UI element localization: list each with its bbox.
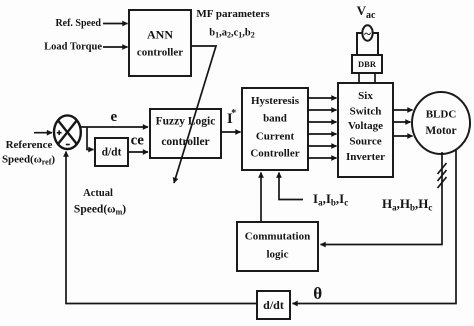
svg-text:logic: logic <box>267 249 289 261</box>
svg-text:Source: Source <box>349 136 381 148</box>
svg-text:Voltage: Voltage <box>348 120 383 132</box>
svg-text:Six: Six <box>358 90 373 102</box>
svg-text:BLDC: BLDC <box>426 109 457 121</box>
svg-text:Vac: Vac <box>357 3 376 21</box>
svg-text:controller: controller <box>137 47 183 59</box>
svg-text:d/dt: d/dt <box>263 298 284 312</box>
svg-text:Speed(ωref): Speed(ωref) <box>2 154 55 167</box>
svg-text:ce: ce <box>131 133 145 149</box>
svg-text:MF parameters: MF parameters <box>196 8 270 20</box>
svg-text:Actual: Actual <box>83 188 113 199</box>
svg-text:Motor: Motor <box>425 125 456 137</box>
svg-text:Inverter: Inverter <box>346 151 385 163</box>
svg-text:Speed(ωm): Speed(ωm) <box>74 204 126 217</box>
svg-text:θ: θ <box>313 284 322 303</box>
svg-text:Controller: Controller <box>250 148 299 160</box>
svg-text:Hysteresis: Hysteresis <box>251 95 300 107</box>
svg-text:Switch: Switch <box>350 106 382 118</box>
svg-text:e: e <box>110 109 117 125</box>
svg-text:Ia,Ib,Ic: Ia,Ib,Ic <box>313 191 348 208</box>
svg-text:Ha,Hb,Hc: Ha,Hb,Hc <box>382 196 432 213</box>
svg-text:Ref. Speed: Ref. Speed <box>55 18 101 29</box>
svg-text:Fuzzy Logic: Fuzzy Logic <box>156 116 216 128</box>
svg-text:controller: controller <box>161 136 209 148</box>
svg-text:Commutation: Commutation <box>245 231 310 243</box>
svg-text:ANN: ANN <box>147 28 173 42</box>
svg-text:DBR: DBR <box>358 59 377 69</box>
svg-text:Load Torque: Load Torque <box>44 42 102 53</box>
svg-text:Reference: Reference <box>6 139 53 151</box>
svg-text:b1,a2,c1,b2: b1,a2,c1,b2 <box>209 28 254 40</box>
svg-text:*: * <box>231 108 236 119</box>
svg-text:~: ~ <box>364 26 371 41</box>
svg-text:band: band <box>263 113 287 125</box>
svg-text:d/dt: d/dt <box>102 147 122 159</box>
svg-text:Current: Current <box>256 131 295 143</box>
